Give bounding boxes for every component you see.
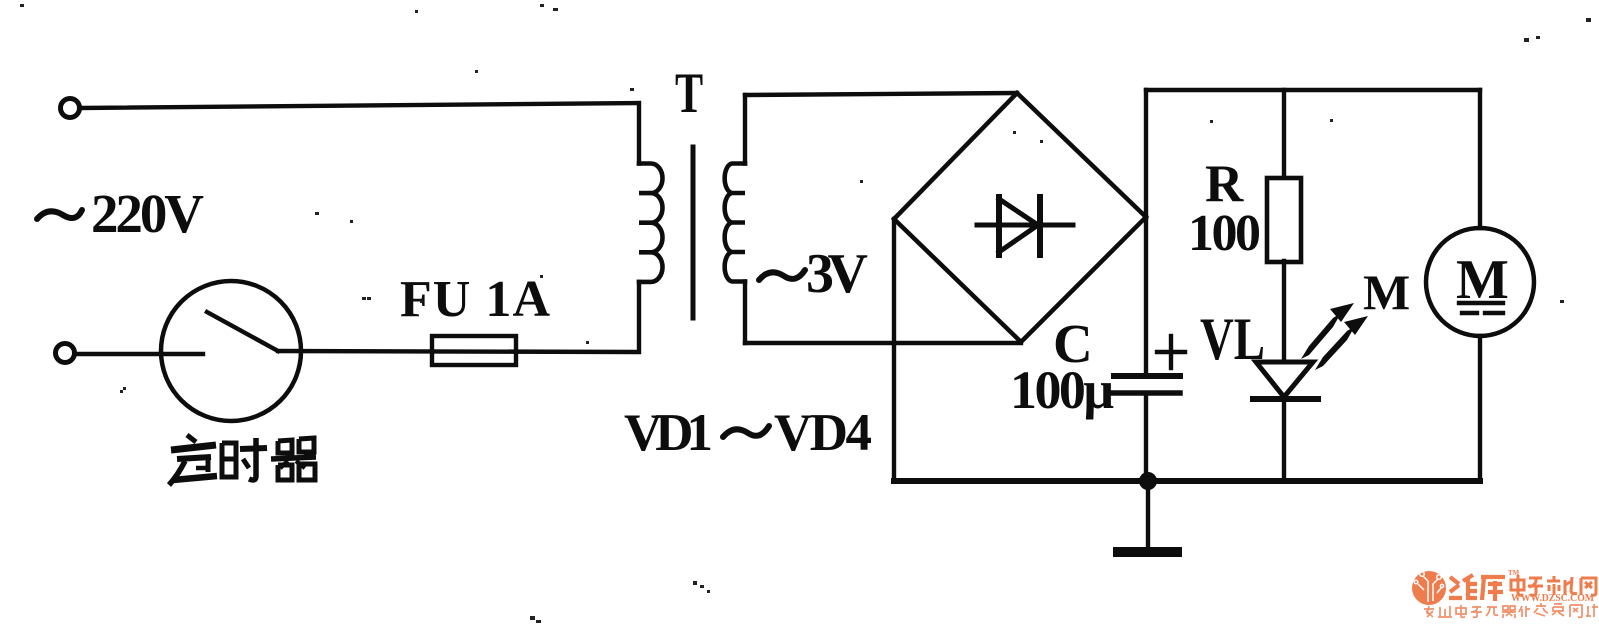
svg-text:M: M [1363,264,1410,320]
svg-text:T: T [675,61,703,125]
svg-text:3V: 3V [806,243,868,305]
svg-text:100μ: 100μ [1010,360,1114,420]
svg-text:100: 100 [1188,205,1261,262]
svg-text:VL: VL [1200,305,1265,372]
svg-text:M: M [1456,249,1509,311]
svg-text:TM: TM [1508,569,1520,577]
svg-text:VD1: VD1 [624,404,713,462]
svg-text:FU 1A: FU 1A [400,271,550,328]
svg-text:VD4: VD4 [774,404,872,462]
svg-text:WWW.DZSC.COM: WWW.DZSC.COM [1511,593,1595,604]
svg-text:220V: 220V [91,183,204,244]
